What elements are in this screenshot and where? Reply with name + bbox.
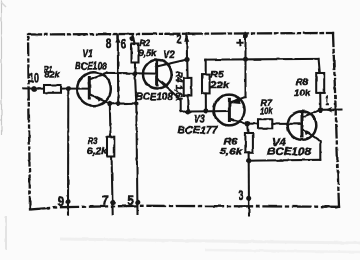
transistor V1 xyxy=(77,72,111,106)
svg-text:+: + xyxy=(236,36,244,51)
svg-text:R5: R5 xyxy=(211,70,225,81)
plus supply lead xyxy=(244,34,246,98)
wire rail to R3 xyxy=(109,104,112,137)
wire plus rail to R8 xyxy=(319,59,320,73)
svg-text:7: 7 xyxy=(102,193,109,208)
node I (plus rail junction) xyxy=(243,57,248,62)
pin 1 lead xyxy=(321,108,342,110)
node C (emitter rail corner) xyxy=(134,101,139,106)
resistor R1 xyxy=(44,85,61,93)
wire emitter net V2 to V3 base xyxy=(181,110,230,113)
node B (R2/collector wire) xyxy=(132,71,137,76)
svg-text:BCE177: BCE177 xyxy=(178,125,219,137)
resistor R4 xyxy=(184,78,192,96)
node L (R8 / V4 collector / pin1) xyxy=(318,107,324,113)
resistor R6 xyxy=(245,133,253,152)
svg-text:R4 1,6k: R4 1,6k xyxy=(173,72,184,103)
svg-text:1: 1 xyxy=(326,93,330,108)
svg-text:BCE108: BCE108 xyxy=(267,146,312,158)
svg-text:2: 2 xyxy=(177,32,182,47)
svg-text:5: 5 xyxy=(127,193,134,208)
wire V1 emitter rail xyxy=(110,102,136,105)
node pin 9 xyxy=(65,199,70,204)
resistor R2 xyxy=(132,44,139,63)
resistor R5 xyxy=(202,75,210,94)
svg-text:R8: R8 xyxy=(296,77,309,88)
wire node J to R6 xyxy=(247,124,248,133)
node F (V2 collector / pin2 / R4) xyxy=(184,57,189,62)
svg-text:10k: 10k xyxy=(294,88,311,99)
node G (R4 / net) xyxy=(186,109,191,114)
pin 2 lead xyxy=(186,34,188,60)
node D (V1 emitter / R3) xyxy=(107,101,112,106)
svg-text:8: 8 xyxy=(106,36,112,51)
svg-text:V1: V1 xyxy=(82,48,93,60)
svg-text:82k: 82k xyxy=(45,70,61,81)
svg-text:BCE108: BCE108 xyxy=(136,91,174,103)
pin 6 lead xyxy=(132,34,134,43)
svg-text:22k: 22k xyxy=(209,80,230,91)
scan artifact top left mark xyxy=(1,2,6,7)
scan artifact bottom left xyxy=(5,216,7,250)
pin 6 dot xyxy=(129,36,134,41)
wire R2 bottom xyxy=(134,63,136,74)
node H (R5 / net) xyxy=(203,108,208,113)
IC boundary dash-dot frame xyxy=(28,33,339,210)
transistor V3 xyxy=(214,95,248,126)
node pin10 xyxy=(31,86,37,92)
pin 8 arrow xyxy=(115,37,120,43)
wire node B down to pin 5 xyxy=(135,74,138,214)
transistor V2 xyxy=(143,60,187,112)
svg-text:3: 3 xyxy=(238,188,243,203)
svg-text:V3: V3 xyxy=(194,113,205,125)
svg-text:10: 10 xyxy=(29,71,39,86)
wire R1 to V1 base xyxy=(61,88,89,90)
wire node A down to pin 9 xyxy=(67,89,69,215)
node pin 3 xyxy=(246,196,251,201)
node E (pin8 / rail) xyxy=(116,101,121,106)
wire R5 bottom xyxy=(205,93,207,111)
wire R3 to pin 7 xyxy=(112,157,113,215)
node pin 5 xyxy=(135,200,140,205)
svg-text:9: 9 xyxy=(58,194,64,209)
wire V4 emitter to node K xyxy=(249,159,321,162)
resistor R3 xyxy=(107,137,114,157)
wire node K to pin 3 xyxy=(248,161,250,216)
svg-text:6,2k: 6,2k xyxy=(87,146,108,157)
svg-text:9,5k: 9,5k xyxy=(138,48,157,59)
svg-text:6: 6 xyxy=(121,36,127,51)
pin 10 lead xyxy=(24,87,45,89)
wire R6 bottom to node K xyxy=(248,152,250,160)
svg-text:10k: 10k xyxy=(260,106,273,117)
plus rail wire xyxy=(206,58,319,61)
node A (R1 / pin9 junction) xyxy=(66,86,71,91)
transistor V4 xyxy=(288,110,321,160)
wire node F to R4 xyxy=(186,60,188,78)
node J (V3 collector / R6 / R7) xyxy=(245,121,250,126)
svg-text:5,6k: 5,6k xyxy=(220,146,243,157)
wire node J to R7 xyxy=(247,123,258,125)
resistor R7 xyxy=(258,119,272,128)
node plus on frame xyxy=(243,33,249,39)
pin 8 lead xyxy=(117,34,119,103)
wire rail to R5 xyxy=(205,60,207,75)
wire R4 bottom to node G xyxy=(187,96,190,112)
wire V1 collector to V2 base xyxy=(107,72,157,75)
wire R7 to V4 base xyxy=(272,123,302,125)
resistor R8 xyxy=(316,73,324,93)
node K (R6 / emitter wire / pin3) xyxy=(246,158,251,163)
scan artifact left edge xyxy=(1,0,3,135)
pin 1 arrow xyxy=(325,107,333,113)
svg-text:V2: V2 xyxy=(163,49,175,61)
pin 2 arrow xyxy=(184,36,189,42)
scan artifact bottom streak xyxy=(60,239,360,243)
node pin 7 xyxy=(110,200,115,205)
svg-text:BCE108: BCE108 xyxy=(75,61,108,73)
wire R8 bottom to node L xyxy=(319,93,321,110)
